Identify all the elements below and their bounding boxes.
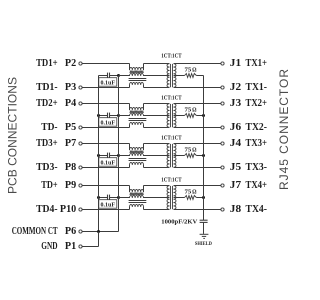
svg-text:Ω: Ω — [192, 188, 196, 195]
choke L1 — [129, 64, 147, 88]
wire choke L1 to transformer T1 primary top — [144, 63, 170, 65]
wire T4 secondary top to J7 — [174, 185, 221, 187]
junction C4 / rail B — [117, 196, 120, 199]
capacitor C4 0.1uF — [99, 195, 119, 201]
wire choke L2 centre to transformer T2 primary CT — [144, 115, 170, 117]
svg-text:TX1-: TX1- — [246, 82, 268, 93]
wire P3 to choke L1 bottom — [82, 87, 129, 89]
svg-text:Ω: Ω — [192, 106, 196, 113]
svg-text:P5: P5 — [65, 122, 76, 133]
junction resistor R4 / shield rail — [202, 196, 205, 199]
wire T1 secondary top to J1 — [174, 63, 221, 65]
terminal P6 — [79, 230, 82, 233]
svg-text:P1: P1 — [65, 241, 76, 252]
wire P10 to choke L4 bottom — [82, 209, 129, 211]
junction C4 / rail A — [97, 196, 100, 199]
wire GND P1 to P6 line — [82, 246, 98, 248]
wire T4 secondary bottom to J8 — [174, 209, 221, 211]
svg-text:J5: J5 — [230, 162, 241, 173]
svg-text:TX3+: TX3+ — [246, 138, 268, 149]
transformer T1 (1CT:1CT) — [167, 64, 176, 88]
wire T3 secondary bottom to J5 — [174, 167, 221, 169]
wire resistor R3 to shield rail — [196, 155, 203, 157]
svg-text:TX2-: TX2- — [246, 122, 268, 133]
svg-text:TX4-: TX4- — [246, 204, 268, 215]
svg-text:TD1-: TD1- — [36, 82, 58, 93]
wire choke L4 to transformer T4 primary top — [144, 185, 170, 187]
wire P4 to choke L2 top — [82, 103, 129, 105]
capacitor C2 0.1uF — [99, 113, 119, 119]
svg-text:GND: GND — [41, 241, 58, 252]
wire C4 to choke L4 centre winding — [119, 197, 130, 199]
svg-text:SHIELD: SHIELD — [195, 242, 212, 247]
wire T2 secondary bottom to J6 — [174, 127, 221, 129]
wire resistor R4 to shield rail — [196, 197, 203, 199]
transformer T2 (1CT:1CT) — [167, 104, 176, 128]
svg-text:P6: P6 — [65, 226, 76, 237]
svg-text:P2: P2 — [65, 58, 76, 69]
terminal J4 — [221, 142, 224, 145]
svg-text:0.1uF: 0.1uF — [101, 120, 116, 127]
svg-text:75: 75 — [185, 66, 192, 73]
svg-text:TX2+: TX2+ — [246, 98, 268, 109]
terminal J3 — [221, 102, 224, 105]
svg-text:1000pF/2KV: 1000pF/2KV — [161, 220, 198, 226]
capacitor C1 0.1uF — [99, 73, 119, 79]
terminal P10 — [79, 208, 82, 211]
svg-text:P4: P4 — [65, 98, 77, 109]
wire C3 to choke L3 centre winding — [119, 155, 130, 157]
wire rail C (75 ohm common to shield cap) — [203, 76, 205, 221]
label C2 value box — [99, 118, 117, 127]
terminal J5 — [221, 166, 224, 169]
wire P7 to choke L3 top — [82, 143, 129, 145]
resistor R4 75 ohm — [185, 196, 197, 200]
svg-text:TD2+: TD2+ — [36, 98, 58, 109]
svg-text:TX4+: TX4+ — [246, 180, 268, 191]
wire P9 to choke L4 top — [82, 185, 129, 187]
wire T3 secondary CT to resistor R3 — [174, 155, 185, 157]
terminal P2 — [79, 62, 82, 65]
svg-text:Ω: Ω — [192, 66, 196, 73]
svg-text:P8: P8 — [65, 162, 76, 173]
wire P5 to choke L2 bottom — [82, 127, 129, 129]
svg-text:TD+: TD+ — [41, 180, 57, 191]
terminal J1 — [221, 62, 224, 65]
svg-text:J3: J3 — [230, 98, 241, 109]
terminal J6 — [221, 126, 224, 129]
transformer T3 (1CT:1CT) — [167, 144, 176, 168]
terminal P9 — [79, 184, 82, 187]
svg-text:P9: P9 — [65, 180, 76, 191]
svg-text:1CT:1CT: 1CT:1CT — [161, 53, 182, 60]
svg-text:Ω: Ω — [192, 146, 196, 153]
wire T2 secondary top to J3 — [174, 103, 221, 105]
resistor R3 75 ohm — [185, 154, 197, 158]
junction C3 / rail A — [97, 154, 100, 157]
svg-text:TD4-: TD4- — [36, 204, 58, 215]
terminal P5 — [79, 126, 82, 129]
wire resistor R2 to shield rail — [196, 115, 203, 117]
svg-text:J2: J2 — [230, 82, 241, 93]
wire choke L4 centre to transformer T4 primary CT — [144, 197, 170, 199]
svg-text:0.1uF: 0.1uF — [101, 80, 116, 87]
terminal J8 — [221, 208, 224, 211]
svg-text:TD-: TD- — [41, 122, 58, 133]
svg-text:J4: J4 — [230, 138, 242, 149]
choke L3 — [129, 144, 147, 168]
svg-text:TX1+: TX1+ — [246, 58, 268, 69]
svg-text:COMMON CT: COMMON CT — [12, 226, 58, 237]
junction resistor R2 / shield rail — [202, 114, 205, 117]
svg-text:TD3-: TD3- — [36, 162, 58, 173]
svg-text:RJ45 CONNECTOR: RJ45 CONNECTOR — [277, 69, 291, 190]
wire resistor R1 to shield rail — [196, 75, 203, 77]
terminal P3 — [79, 86, 82, 89]
junction C1 / rail B — [117, 74, 120, 77]
wire T1 secondary bottom to J2 — [174, 87, 221, 89]
svg-text:PCB CONNECTIONS: PCB CONNECTIONS — [6, 77, 20, 194]
wire choke L2 to transformer T2 primary top — [144, 103, 170, 105]
svg-text:P7: P7 — [65, 138, 76, 149]
resistor R1 75 ohm — [185, 74, 197, 78]
svg-text:P3: P3 — [65, 82, 76, 93]
label C3 value box — [99, 158, 117, 167]
wire choke L3 to transformer T3 primary top — [144, 143, 170, 145]
terminal P8 — [79, 166, 82, 169]
junction C2 / rail B — [117, 114, 120, 117]
capacitor C3 0.1uF — [99, 153, 119, 159]
wire P2 to choke L1 top — [82, 63, 129, 65]
wire C1 to choke L1 centre winding — [119, 75, 130, 77]
svg-text:1CT:1CT: 1CT:1CT — [161, 95, 182, 102]
wire choke L1 centre to transformer T1 primary CT — [144, 75, 170, 77]
capacitor C5 1000pF/2KV — [200, 219, 208, 221]
terminal J2 — [221, 86, 224, 89]
wire C2 to choke L2 centre winding — [119, 115, 130, 117]
terminal J7 — [221, 184, 224, 187]
svg-text:0.1uF: 0.1uF — [101, 202, 116, 209]
svg-text:1CT:1CT: 1CT:1CT — [161, 177, 182, 184]
junction C2 / rail A — [97, 114, 100, 117]
svg-text:J6: J6 — [230, 122, 241, 133]
svg-text:75: 75 — [185, 146, 192, 153]
svg-text:TD3+: TD3+ — [36, 138, 58, 149]
junction C3 / rail B — [117, 154, 120, 157]
svg-text:J7: J7 — [230, 180, 241, 191]
wire rail A (common CT left) — [98, 76, 100, 232]
wire choke L4 to transformer T4 primary bottom — [144, 209, 170, 211]
wire choke L2 to transformer T2 primary bottom — [144, 127, 170, 129]
wire P8 to choke L3 bottom — [82, 167, 129, 169]
terminal P4 — [79, 102, 82, 105]
choke L2 — [129, 104, 147, 128]
wire T3 secondary top to J4 — [174, 143, 221, 145]
resistor R2 75 ohm — [185, 114, 197, 118]
wire COMMON CT P6 to rail B — [82, 231, 118, 233]
svg-text:P10: P10 — [60, 204, 76, 215]
wire choke L3 to transformer T3 primary bottom — [144, 167, 170, 169]
ground (shield earth) — [200, 233, 209, 235]
wire choke L3 centre to transformer T3 primary CT — [144, 155, 170, 157]
svg-text:0.1uF: 0.1uF — [101, 160, 116, 167]
svg-text:J1: J1 — [230, 58, 241, 69]
wire T1 secondary CT to resistor R1 — [174, 75, 185, 77]
label C4 value box — [99, 200, 117, 209]
wire rail B (common CT right) — [118, 76, 120, 232]
svg-text:J8: J8 — [230, 204, 241, 215]
wire T4 secondary CT to resistor R4 — [174, 197, 185, 199]
terminal P1 — [79, 245, 82, 248]
terminal P7 — [79, 142, 82, 145]
svg-text:75: 75 — [185, 188, 192, 195]
junction resistor R3 / shield rail — [202, 154, 205, 157]
svg-text:75: 75 — [185, 106, 192, 113]
svg-text:TD1+: TD1+ — [36, 58, 58, 69]
label C1 value box — [99, 78, 117, 87]
svg-text:TX3-: TX3- — [246, 162, 268, 173]
svg-text:1CT:1CT: 1CT:1CT — [161, 135, 182, 142]
choke L4 — [129, 186, 147, 210]
wire T2 secondary CT to resistor R2 — [174, 115, 185, 117]
wire choke L1 to transformer T1 primary bottom — [144, 87, 170, 89]
junction rail A / P6 / GND riser — [97, 230, 100, 233]
transformer T4 (1CT:1CT) — [167, 186, 176, 210]
